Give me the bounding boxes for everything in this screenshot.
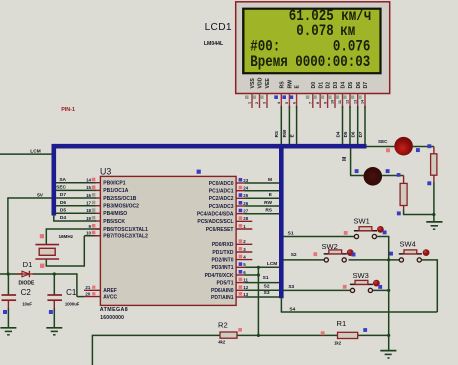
svg-text:1000uF: 1000uF (65, 302, 80, 307)
svg-text:16000000: 16000000 (100, 315, 124, 321)
svg-text:PD2/INT0: PD2/INT0 (212, 257, 234, 263)
svg-text:D5: D5 (343, 131, 348, 137)
svg-text:S2: S2 (264, 283, 270, 289)
svg-text:C2: C2 (21, 288, 32, 297)
svg-text:10: 10 (86, 231, 91, 236)
svg-text:18: 18 (86, 208, 91, 213)
svg-text:M: M (268, 177, 272, 183)
svg-text:4k2: 4k2 (218, 339, 226, 344)
svg-text:AVCC: AVCC (103, 295, 117, 301)
svg-text:D1: D1 (23, 260, 33, 269)
svg-text:ATMEGA8: ATMEGA8 (100, 307, 128, 313)
svg-text:SA: SA (59, 177, 66, 183)
svg-text:10uF: 10uF (22, 302, 32, 307)
svg-text:SW3: SW3 (353, 271, 369, 280)
svg-text:D3: D3 (333, 82, 339, 89)
svg-text:12: 12 (243, 285, 248, 290)
svg-text:S3: S3 (264, 290, 270, 296)
svg-text:PD0/RXD: PD0/RXD (212, 242, 234, 248)
svg-text:D6: D6 (351, 131, 356, 137)
svg-text:PB6/TOSC1/XTAL1: PB6/TOSC1/XTAL1 (103, 227, 148, 233)
svg-text:LCD1: LCD1 (205, 22, 232, 33)
svg-text:SEC: SEC (56, 185, 66, 191)
svg-text:28: 28 (243, 216, 248, 221)
svg-text:E: E (295, 85, 301, 89)
svg-text:SW2: SW2 (322, 242, 338, 251)
svg-text:VSS: VSS (250, 78, 256, 89)
svg-text:M: M (342, 157, 348, 161)
svg-text:S1: S1 (263, 275, 269, 281)
svg-text:9: 9 (323, 102, 327, 104)
svg-text:1k2: 1k2 (334, 340, 342, 345)
svg-text:PIN-1: PIN-1 (61, 107, 75, 113)
svg-text:12: 12 (346, 100, 350, 104)
svg-text:PB5/SCK: PB5/SCK (103, 219, 125, 225)
svg-text:RS: RS (265, 208, 272, 214)
svg-text:D4: D4 (341, 82, 347, 89)
svg-text:6: 6 (292, 102, 296, 104)
svg-text:PC0/ADC0: PC0/ADC0 (209, 181, 234, 187)
svg-text:D5: D5 (60, 208, 66, 214)
svg-text:S3: S3 (288, 284, 294, 290)
svg-text:7: 7 (309, 102, 313, 104)
svg-text:D4: D4 (60, 215, 66, 221)
svg-text:PD3/INT1: PD3/INT1 (212, 265, 234, 271)
svg-text:0.078: 0.078 (296, 23, 333, 41)
svg-text:5: 5 (285, 102, 289, 104)
svg-text:S2: S2 (291, 252, 297, 258)
svg-text:Время 0000:00:03: Время 0000:00:03 (250, 54, 370, 72)
svg-text:D6: D6 (60, 200, 66, 206)
svg-text:SW4: SW4 (400, 240, 416, 249)
svg-text:PB2/SS/OC1B: PB2/SS/OC1B (103, 196, 136, 202)
svg-text:D6: D6 (356, 82, 362, 89)
svg-text:16: 16 (86, 193, 91, 198)
svg-text:PB3/MOSI/OC2: PB3/MOSI/OC2 (103, 204, 139, 210)
svg-text:D2: D2 (326, 82, 332, 89)
svg-text:RW: RW (264, 200, 272, 206)
svg-text:11: 11 (338, 100, 342, 104)
svg-text:D5: D5 (348, 82, 354, 89)
svg-text:PC6/RESET: PC6/RESET (206, 227, 234, 233)
svg-text:PB1/OC1A: PB1/OC1A (103, 188, 128, 194)
svg-text:16MHz: 16MHz (58, 234, 73, 239)
svg-text:3: 3 (263, 102, 267, 104)
svg-text:E: E (289, 134, 294, 137)
svg-text:D4: D4 (335, 131, 340, 137)
svg-text:PD4/T0/XCK: PD4/T0/XCK (205, 273, 234, 279)
svg-text:PB0/ICP1: PB0/ICP1 (103, 181, 125, 187)
svg-text:24: 24 (243, 186, 248, 191)
svg-text:D1: D1 (318, 82, 324, 89)
svg-text:PD6/AIN0: PD6/AIN0 (211, 288, 234, 294)
svg-text:C1: C1 (66, 288, 77, 297)
svg-text:25: 25 (243, 193, 248, 198)
svg-text:2: 2 (255, 102, 259, 104)
svg-text:15: 15 (86, 185, 91, 190)
svg-text:LCM: LCM (30, 149, 40, 155)
svg-text:R1: R1 (337, 319, 347, 328)
svg-text:19: 19 (86, 216, 91, 221)
svg-text:AREF: AREF (103, 288, 117, 294)
svg-text:DIODE: DIODE (19, 281, 36, 287)
svg-text:27: 27 (243, 209, 248, 214)
svg-text:PC2/ADC2: PC2/ADC2 (209, 196, 234, 202)
svg-text:S4: S4 (289, 306, 295, 312)
svg-text:PC5/ADC5/SCL: PC5/ADC5/SCL (197, 219, 233, 225)
svg-text:RW: RW (288, 80, 294, 89)
svg-text:10: 10 (331, 100, 335, 104)
svg-text:21: 21 (85, 285, 90, 290)
svg-text:D0: D0 (311, 82, 317, 89)
svg-text:D7: D7 (60, 192, 66, 198)
svg-text:13: 13 (353, 100, 357, 104)
svg-text:RS: RS (279, 81, 285, 89)
svg-text:26: 26 (243, 201, 248, 206)
svg-text:13: 13 (243, 292, 248, 297)
svg-text:PD1/TXD: PD1/TXD (212, 250, 234, 256)
svg-text:RW: RW (282, 129, 287, 137)
svg-text:PD5/T1: PD5/T1 (217, 280, 234, 286)
svg-text:20: 20 (85, 292, 90, 297)
svg-text:PB4/MISO: PB4/MISO (103, 211, 127, 217)
svg-text:17: 17 (86, 201, 91, 206)
svg-text:R2: R2 (218, 321, 228, 330)
svg-text:PC4/ADC4/SDA: PC4/ADC4/SDA (197, 212, 234, 218)
svg-text:S1: S1 (288, 230, 294, 236)
svg-text:SW1: SW1 (354, 217, 370, 226)
svg-text:5V: 5V (37, 192, 44, 198)
svg-text:PD7/AIN1: PD7/AIN1 (211, 295, 234, 301)
svg-text:LM044L: LM044L (204, 41, 224, 47)
svg-text:D7: D7 (363, 82, 369, 89)
svg-text:PB7/TOSC2/XTAL2: PB7/TOSC2/XTAL2 (103, 234, 148, 240)
svg-text:8: 8 (316, 102, 320, 104)
svg-text:U3: U3 (100, 166, 111, 176)
svg-text:VEE: VEE (265, 78, 271, 89)
svg-text:14: 14 (86, 178, 91, 183)
svg-text:SEC: SEC (378, 139, 388, 144)
svg-text:PC3/ADC3: PC3/ADC3 (209, 204, 234, 210)
svg-text:1: 1 (248, 102, 252, 104)
svg-text:PC1/ADC1: PC1/ADC1 (209, 189, 234, 195)
svg-text:23: 23 (243, 178, 248, 183)
svg-text:VDD: VDD (258, 77, 264, 88)
svg-text:RS: RS (274, 131, 279, 137)
svg-text:D7: D7 (358, 131, 363, 137)
svg-text:LCM: LCM (267, 261, 277, 267)
svg-text:11: 11 (243, 277, 248, 282)
